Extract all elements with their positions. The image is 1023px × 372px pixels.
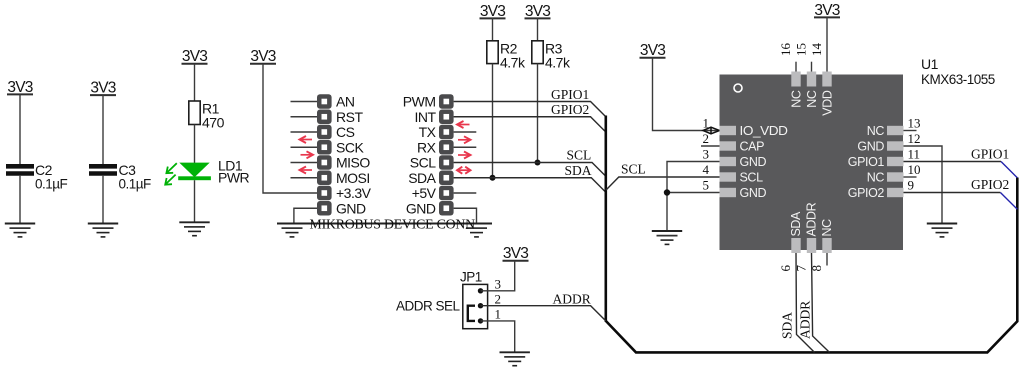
wire net ADDR (JP1 pin2 to bus)	[481, 306, 606, 321]
red arrow SCK (in)	[300, 136, 313, 143]
svg-text:GPIO1: GPIO1	[971, 147, 1009, 162]
wire 3V3 to R2	[492, 18, 494, 41]
svg-text:3V3: 3V3	[250, 48, 275, 65]
wire R3 to SCL net	[537, 64, 539, 163]
svg-text:3: 3	[703, 147, 710, 162]
resistor R2 (4.7k)	[487, 40, 526, 70]
ground (C2)	[5, 224, 35, 237]
U1 pin 2 stub (CAP)	[701, 145, 720, 147]
svg-text:NC: NC	[867, 124, 885, 138]
power 3V3 (U1 IO_VDD)	[640, 42, 666, 59]
wire net SCL to U1	[606, 177, 720, 190]
power 3V3 (R3)	[525, 3, 551, 20]
svg-text:0.1µF: 0.1µF	[35, 177, 68, 192]
svg-text:2: 2	[495, 291, 502, 306]
svg-text:+5V: +5V	[412, 185, 437, 201]
junction GND	[664, 189, 670, 195]
junction R3/SCL	[535, 160, 541, 166]
bus entry GPIO1 (blue)	[1001, 162, 1017, 178]
wire 3V3 to R1	[194, 64, 196, 101]
svg-text:JP1: JP1	[460, 270, 482, 285]
svg-text:GND: GND	[857, 140, 884, 154]
U1 right pin stubs	[904, 131, 917, 178]
U1 top pin numbers	[778, 43, 824, 57]
capacitor C2 (0.1uF)	[6, 162, 68, 192]
U1 top pin names	[790, 90, 835, 116]
power 3V3 (R1)	[182, 48, 208, 65]
svg-text:NC: NC	[805, 90, 819, 108]
wire 3V3 to C2	[19, 94, 21, 164]
svg-text:PWR: PWR	[218, 170, 250, 186]
red arrow MOSI (in)	[300, 167, 313, 174]
wire LD1 to ground	[194, 180, 196, 222]
svg-text:5: 5	[703, 178, 710, 193]
ground (JP1)	[500, 352, 530, 365]
net-tie arrow at pin 1	[703, 127, 720, 134]
ground (U1 left)	[652, 231, 682, 244]
wire net GPIO2 (U1 pin9)	[904, 192, 1001, 194]
svg-text:GND: GND	[336, 200, 366, 216]
red arrow TX (in)	[457, 121, 470, 128]
U1 right pin numbers	[908, 116, 921, 193]
U1 bottom pin pads	[791, 238, 831, 253]
svg-text:3V3: 3V3	[525, 3, 550, 20]
wire JP1 pin1 to ground	[481, 321, 515, 352]
svg-text:GPIO2: GPIO2	[848, 186, 885, 200]
svg-text:PWM: PWM	[403, 94, 436, 110]
svg-text:3V3: 3V3	[7, 79, 32, 96]
svg-text:3V3: 3V3	[640, 42, 665, 59]
ground (C3)	[88, 224, 118, 237]
svg-text:SCL: SCL	[567, 148, 592, 163]
svg-text:ADDR: ADDR	[805, 202, 819, 236]
svg-text:VDD: VDD	[821, 90, 835, 116]
svg-text:3V3: 3V3	[503, 245, 528, 262]
svg-text:RX: RX	[417, 139, 437, 155]
svg-text:IO_VDD: IO_VDD	[740, 124, 788, 138]
right header stub wires	[454, 132, 477, 193]
wire net GPIO1 (U1 pin11)	[904, 161, 1002, 163]
svg-text:INT: INT	[414, 109, 436, 125]
svg-text:SCK: SCK	[336, 139, 364, 155]
wire net SCL	[454, 163, 606, 177]
svg-text:GPIO2: GPIO2	[551, 102, 589, 117]
svg-text:NC: NC	[867, 171, 885, 185]
wire net GPIO1 (PWM)	[454, 102, 606, 117]
svg-text:GND: GND	[740, 186, 767, 200]
ground (right header)	[466, 228, 487, 237]
power 3V3 (R2)	[480, 3, 506, 20]
red arrow SCL (out)	[458, 152, 471, 159]
svg-text:GND: GND	[740, 155, 767, 169]
wire U1 pin12 GND	[904, 146, 943, 224]
wire U1 pin3 GND	[667, 162, 720, 232]
svg-text:1: 1	[703, 116, 710, 131]
svg-text:+3.3V: +3.3V	[336, 185, 372, 201]
power 3V3 (C2)	[7, 79, 33, 96]
U1 left pin names	[740, 124, 788, 200]
wire 3V3 to R3	[537, 18, 539, 41]
svg-text:GPIO1: GPIO1	[551, 87, 589, 102]
svg-text:SDA: SDA	[565, 163, 592, 178]
power 3V3 (mikrobus +3.3V)	[250, 48, 276, 65]
JP1 pin numbers	[495, 276, 502, 321]
svg-text:12: 12	[908, 131, 921, 146]
U1 top pin pads	[791, 72, 831, 87]
junction R2/SDA	[490, 175, 496, 181]
ground (left header)	[282, 228, 303, 237]
power 3V3 (JP1)	[503, 245, 529, 262]
svg-text:CAP: CAP	[740, 140, 765, 154]
svg-text:0.1µF: 0.1µF	[119, 177, 152, 192]
bus entry GPIO2 (blue)	[1000, 193, 1017, 210]
wire 3V3 to C3	[102, 95, 104, 164]
svg-text:NC: NC	[790, 90, 804, 108]
wire C3 to ground	[102, 176, 104, 224]
power 3V3 (U1 VDD)	[814, 2, 840, 19]
svg-text:GPIO2: GPIO2	[971, 177, 1009, 192]
svg-text:SDA: SDA	[780, 312, 795, 339]
svg-text:SDA: SDA	[408, 170, 436, 186]
svg-text:3V3: 3V3	[814, 2, 839, 19]
svg-text:GPIO1: GPIO1	[848, 155, 885, 169]
svg-text:CS: CS	[336, 124, 355, 140]
U1 top pin stubs	[796, 62, 812, 72]
wire R1 to LD1	[194, 125, 196, 164]
svg-text:14: 14	[809, 43, 824, 57]
svg-text:MISO: MISO	[336, 155, 370, 171]
svg-text:13: 13	[908, 116, 921, 131]
power 3V3 (C3)	[90, 80, 116, 97]
svg-text:11: 11	[908, 147, 921, 162]
svg-text:2: 2	[703, 131, 710, 146]
U1 right pin pads	[887, 126, 904, 197]
svg-text:3: 3	[495, 276, 502, 291]
jumper JP1 (ADDR SEL)	[396, 270, 488, 329]
connector right header (mikrobus)	[439, 94, 454, 215]
wire 3V3 to +3.3V pin	[263, 64, 317, 193]
resistor R3 (4.7k)	[532, 40, 571, 70]
connector left header (mikrobus)	[317, 94, 332, 215]
svg-text:KMX63-1055: KMX63-1055	[921, 72, 995, 87]
svg-text:4.7k: 4.7k	[500, 54, 526, 70]
svg-text:SCL: SCL	[621, 162, 646, 177]
wire 3V3 to VDD pin14	[826, 17, 828, 71]
svg-text:3V3: 3V3	[90, 80, 115, 97]
wire JP1 pin3 to 3V3	[481, 261, 515, 291]
svg-text:SDA: SDA	[789, 211, 803, 237]
wire ground rail	[277, 223, 492, 225]
wire U1 pin7 ADDR to bus	[812, 253, 830, 352]
U1 left pin numbers	[703, 116, 710, 193]
wire net SDA	[454, 178, 606, 193]
svg-text:470: 470	[202, 115, 225, 131]
bus vertical left	[604, 116, 607, 322]
U1 pin 8 stub (NC)	[826, 253, 828, 266]
svg-text:9: 9	[908, 178, 915, 193]
wire U1 pin5 GND	[667, 192, 720, 194]
svg-text:NC: NC	[820, 219, 834, 237]
svg-text:SCL: SCL	[740, 171, 764, 185]
svg-text:SCL: SCL	[410, 155, 436, 171]
svg-text:4: 4	[703, 162, 710, 177]
red arrow MISO (out)	[301, 151, 314, 158]
wire right GND to ground rail	[454, 208, 477, 223]
svg-text:ADDR SEL: ADDR SEL	[396, 299, 461, 314]
wire left GND to ground rail	[294, 208, 317, 223]
bus bottom	[606, 178, 1018, 353]
ground (LD1)	[179, 222, 209, 235]
wire C2 to ground	[19, 176, 21, 224]
red arrow RX (out)	[458, 136, 471, 143]
svg-text:6: 6	[778, 265, 793, 272]
svg-text:AN: AN	[336, 94, 354, 110]
svg-text:GND: GND	[406, 200, 436, 216]
ground (U1 right)	[927, 224, 957, 237]
svg-text:1: 1	[495, 307, 502, 322]
U1 bottom pin names	[789, 202, 834, 236]
svg-text:4.7k: 4.7k	[545, 54, 571, 70]
right header pin labels	[403, 94, 437, 217]
red arrow SDA (bidir)	[457, 167, 471, 174]
U1 left pin pads	[720, 126, 737, 197]
svg-text:ADDR: ADDR	[798, 301, 813, 339]
svg-text:10: 10	[908, 162, 921, 177]
capacitor C3 (0.1uF)	[89, 162, 151, 192]
svg-text:RST: RST	[336, 109, 363, 125]
svg-text:15: 15	[794, 43, 809, 56]
LED LD1 (PWR)	[165, 158, 249, 186]
left header pin labels	[336, 94, 372, 217]
U1 bottom pin numbers	[778, 265, 824, 272]
wire U1 pin6 SDA to bus	[796, 253, 815, 352]
wire net GPIO2 (INT)	[454, 117, 606, 132]
left header stub wires	[291, 102, 318, 178]
svg-text:MOSI: MOSI	[336, 170, 370, 186]
svg-text:MIKROBUS DEVICE CONN: MIKROBUS DEVICE CONN	[310, 216, 476, 231]
wire 3V3 to IO_VDD	[653, 58, 720, 131]
wire R2 to SDA net	[492, 64, 494, 178]
IC U1 KMX63-1055 body	[720, 75, 904, 251]
svg-text:16: 16	[778, 43, 793, 57]
svg-text:3V3: 3V3	[182, 48, 207, 65]
svg-text:U1: U1	[921, 56, 939, 72]
svg-text:3V3: 3V3	[480, 3, 505, 20]
svg-text:TX: TX	[419, 124, 437, 140]
resistor R1 (470)	[189, 101, 225, 131]
U1 right pin names	[848, 124, 885, 200]
svg-text:ADDR: ADDR	[553, 292, 591, 307]
